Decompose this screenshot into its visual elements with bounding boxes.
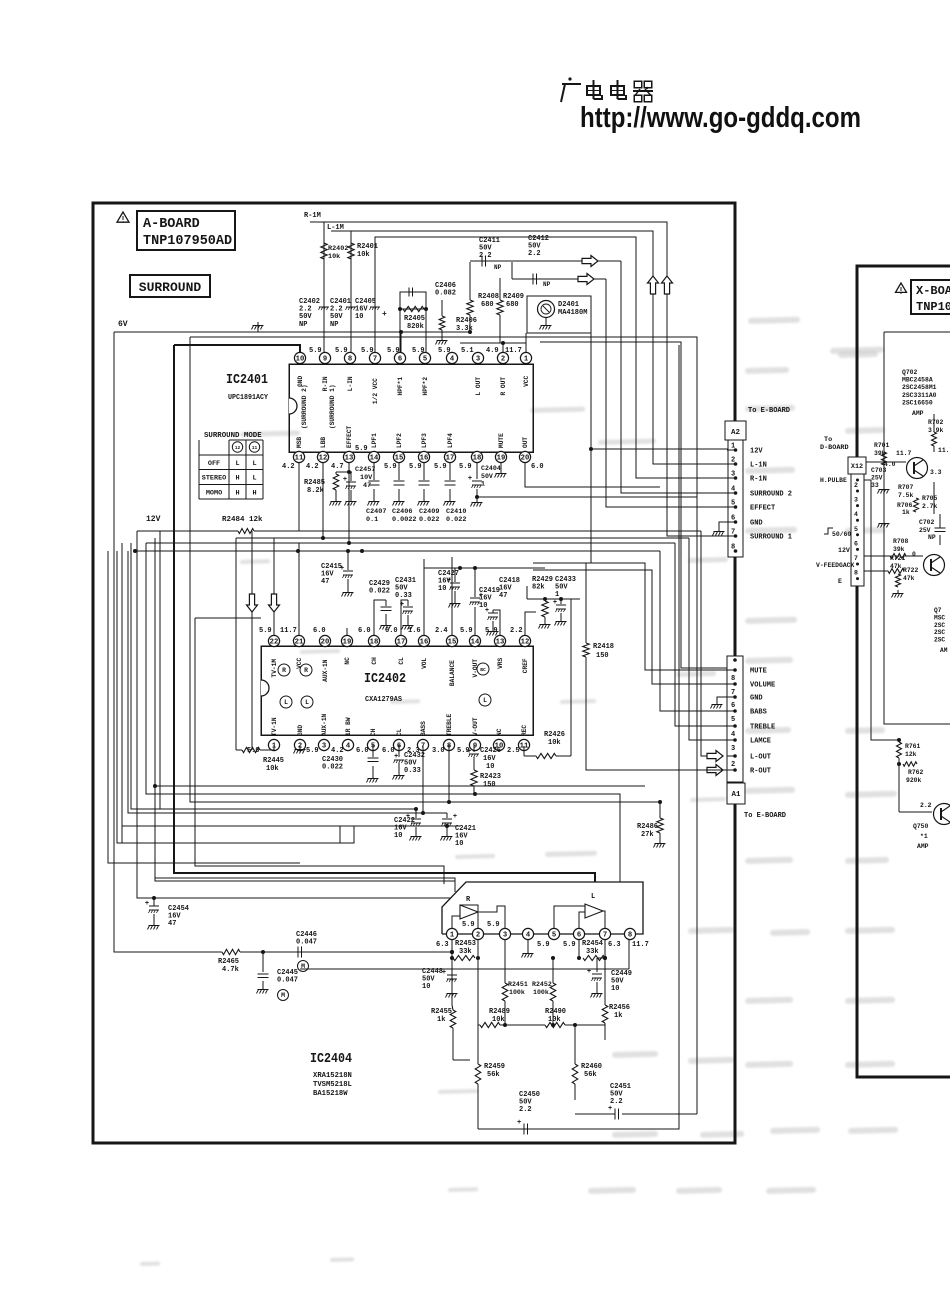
svg-text:17: 17 [397,639,406,647]
svg-text:BASS: BASS [420,721,427,736]
svg-text:4.7k: 4.7k [222,966,239,974]
svg-text:4.2: 4.2 [331,747,344,755]
svg-text:CH: CH [371,657,378,665]
svg-text:HPF*2: HPF*2 [422,377,429,396]
svg-text:R761: R761 [905,743,921,750]
svg-text:+: + [400,601,404,609]
svg-text:4: 4 [346,743,351,751]
svg-text:13: 13 [496,639,505,647]
svg-text:3: 3 [731,471,735,479]
svg-text:10k: 10k [357,251,370,259]
svg-text:15: 15 [395,455,404,463]
svg-text:16: 16 [420,455,429,463]
svg-text:5.9: 5.9 [335,347,348,355]
svg-text:Q750: Q750 [913,823,929,830]
svg-text:R721: R721 [890,555,906,562]
svg-text:X12: X12 [851,463,863,471]
svg-text:47k: 47k [903,575,915,582]
svg-text:5: 5 [423,356,427,364]
svg-text:V-FEEDGACK: V-FEEDGACK [816,562,855,569]
svg-text:R2454: R2454 [582,940,603,948]
svg-text:R2445: R2445 [263,757,284,765]
svg-text:C2410: C2410 [446,508,466,516]
svg-text:4.7: 4.7 [331,463,344,471]
svg-text:8: 8 [348,356,352,364]
svg-text:R2460: R2460 [581,1063,602,1071]
svg-text:11: 11 [295,455,304,463]
svg-text:1k: 1k [902,509,910,516]
svg-text:3.0: 3.0 [432,747,445,755]
svg-text:R705: R705 [922,495,938,502]
svg-text:R2408: R2408 [478,293,499,301]
svg-text:VOLUME: VOLUME [750,682,775,690]
svg-text:2.2: 2.2 [920,802,932,809]
svg-text:33: 33 [871,482,879,489]
svg-text:NP: NP [299,321,307,329]
svg-text:MUTE: MUTE [498,433,505,448]
svg-text:4: 4 [731,731,735,739]
svg-text:TNP107: TNP107 [916,300,950,314]
svg-text:+: + [517,1119,521,1127]
svg-text:680: 680 [481,301,494,309]
svg-text:1.6: 1.6 [408,627,421,635]
svg-text:EFFECT: EFFECT [346,425,353,448]
svg-text:8: 8 [731,675,735,683]
svg-text:1: 1 [450,932,455,940]
svg-text:5.9: 5.9 [412,347,425,355]
svg-text:12: 12 [521,639,530,647]
svg-text:A1: A1 [731,791,741,799]
svg-text:L: L [305,699,309,706]
svg-text:8: 8 [628,932,632,940]
svg-text:3.3: 3.3 [930,469,942,476]
svg-text:47: 47 [321,578,329,586]
svg-text:1k: 1k [614,1012,622,1020]
svg-text:*1: *1 [920,833,928,840]
svg-text:H: H [235,489,239,497]
svg-text:R701: R701 [874,442,890,449]
svg-text:5: 5 [731,716,735,724]
svg-text:6.0: 6.0 [356,747,369,755]
svg-text:LBB: LBB [320,437,327,448]
svg-text:TV-1N: TV-1N [271,717,278,736]
svg-text:+: + [442,969,446,977]
svg-text:2SC2458M1: 2SC2458M1 [902,384,937,391]
svg-text:2.2: 2.2 [510,627,523,635]
svg-text:+: + [382,310,387,319]
svg-text:VCC: VCC [523,375,530,386]
svg-text:+: + [145,900,149,908]
svg-text:11.7: 11.7 [632,941,649,949]
svg-text:R2486: R2486 [637,823,658,831]
svg-text:GND: GND [297,725,304,736]
svg-text:11.7: 11.7 [505,347,522,355]
svg-text:6: 6 [731,515,735,523]
svg-text:R2401: R2401 [357,243,378,251]
svg-text:6V: 6V [118,320,128,329]
svg-text:L: L [252,460,256,468]
svg-text:10: 10 [394,832,402,840]
svg-text:MUTE: MUTE [750,668,767,676]
svg-text:82k: 82k [532,584,545,592]
svg-text:1/2 VCC: 1/2 VCC [372,378,379,404]
svg-text:2: 2 [731,457,735,465]
svg-text:L: L [483,697,487,704]
svg-text:12V: 12V [750,448,763,456]
svg-text:0.047: 0.047 [296,939,317,947]
svg-text:(SURROUND 2): (SURROUND 2) [301,384,308,429]
svg-text:CREF: CREF [522,658,529,673]
svg-text:TNP107950AD: TNP107950AD [143,234,232,249]
svg-text:H: H [235,475,239,483]
svg-text:11.7: 11.7 [896,450,912,457]
svg-text:L: L [284,699,288,706]
svg-text:2.4: 2.4 [435,627,448,635]
svg-text:7: 7 [854,555,858,562]
svg-text:OUT: OUT [522,437,529,448]
svg-text:IC2401: IC2401 [226,372,268,388]
svg-text:16V: 16V [483,755,496,763]
svg-text:0.1: 0.1 [366,516,378,524]
svg-text:STEREO: STEREO [202,475,226,483]
svg-text:6.0: 6.0 [358,627,371,635]
svg-text:10: 10 [296,356,305,364]
svg-text:A-BOARD: A-BOARD [143,217,200,232]
svg-text:8: 8 [731,544,735,552]
svg-text:TV-1M: TV-1M [271,659,278,678]
svg-text:R762: R762 [908,769,924,776]
svg-text:M: M [281,992,285,999]
svg-text:2SC: 2SC [934,637,945,644]
svg-text:2.5: 2.5 [507,747,520,755]
svg-text:BA15218W: BA15218W [313,1090,348,1098]
svg-text:R2489: R2489 [489,1008,510,1016]
svg-text:4.2: 4.2 [282,463,295,471]
svg-text:C2406: C2406 [392,508,412,516]
svg-text:R722: R722 [903,567,919,574]
svg-text:AUX-1N: AUX-1N [322,659,329,682]
svg-text:100k: 100k [533,989,549,996]
svg-text:0.33: 0.33 [404,767,421,775]
svg-text:5.9: 5.9 [309,347,322,355]
svg-text:6.0: 6.0 [313,627,326,635]
svg-text:12: 12 [319,455,328,463]
svg-text:GND: GND [750,520,763,528]
svg-text:R2406: R2406 [456,317,477,325]
svg-text:10: 10 [486,763,494,771]
svg-text:R2409: R2409 [503,293,524,301]
svg-text:5.9: 5.9 [487,921,500,929]
svg-text:CL: CL [398,657,405,665]
svg-text:MSC: MSC [934,614,945,621]
svg-text:18: 18 [370,639,379,647]
svg-text:LPF2: LPF2 [396,433,403,448]
svg-text:NP: NP [494,264,502,271]
svg-text:To E-BOARD: To E-BOARD [744,812,786,820]
svg-text:CL: CL [396,728,403,736]
svg-text:C2457: C2457 [355,466,375,474]
svg-text:4.2: 4.2 [306,463,319,471]
svg-text:8.2k: 8.2k [307,487,324,495]
svg-text:6: 6 [731,702,735,710]
svg-text:R2426: R2426 [544,731,565,739]
svg-text:10: 10 [611,985,619,993]
svg-text:150: 150 [596,652,609,660]
svg-text:47: 47 [168,920,176,928]
svg-text:CH: CH [370,728,377,736]
svg-text:UPC1891ACY: UPC1891ACY [228,394,268,402]
svg-text:R2402: R2402 [328,245,348,253]
svg-text:6.3: 6.3 [608,941,621,949]
svg-text:+: + [479,592,483,600]
svg-text:4: 4 [450,356,455,364]
svg-text:V-OUT: V-OUT [472,717,479,736]
svg-text:2.7k: 2.7k [922,503,938,510]
svg-text:D-BOARD: D-BOARD [820,444,849,452]
svg-text:5.9: 5.9 [459,463,472,471]
svg-text:4: 4 [526,932,531,940]
svg-text:100k: 100k [509,989,525,996]
svg-text:Q702: Q702 [902,369,918,376]
svg-text:0.022: 0.022 [446,516,466,524]
svg-text:L-IN: L-IN [347,376,354,391]
svg-text:NP: NP [543,281,551,288]
svg-text:10k: 10k [548,739,561,747]
svg-text:1: 1 [731,443,735,451]
svg-text:3: 3 [476,356,480,364]
svg-text:2SC16650: 2SC16650 [902,399,933,406]
svg-text:22: 22 [270,639,279,647]
svg-text:2: 2 [731,761,735,769]
svg-text:TREBLE: TREBLE [750,724,775,732]
svg-text:12k: 12k [905,751,917,758]
svg-text:9: 9 [323,356,327,364]
svg-text:R702: R702 [928,419,944,426]
svg-text:5: 5 [731,500,735,508]
svg-text:39k: 39k [893,546,905,553]
svg-text:6.0: 6.0 [531,463,544,471]
svg-text:C2409: C2409 [419,508,439,516]
svg-text:680: 680 [506,301,519,309]
svg-text:2: 2 [501,356,505,364]
svg-text:6: 6 [398,356,402,364]
svg-text:R: R [304,667,308,674]
svg-text:LPF1: LPF1 [371,433,378,448]
svg-text:0.022: 0.022 [369,588,390,596]
svg-text:16: 16 [420,639,429,647]
svg-text:2SC: 2SC [934,629,945,636]
svg-text:6.0: 6.0 [382,747,395,755]
svg-text:IC2402: IC2402 [364,671,406,687]
svg-text:(SURROUND 1): (SURROUND 1) [329,384,336,429]
svg-text:5.9: 5.9 [537,941,550,949]
svg-text:R-1N: R-1N [750,476,767,484]
svg-text:3: 3 [503,932,507,940]
svg-text:7: 7 [373,356,377,364]
svg-text:12: 12 [235,445,241,451]
svg-text:R2405: R2405 [404,315,425,323]
svg-text:10: 10 [455,840,463,848]
svg-text:150: 150 [483,781,496,789]
svg-text:R2485: R2485 [304,479,325,487]
svg-text:5.9: 5.9 [438,347,451,355]
svg-text:11: 11 [252,445,258,451]
svg-text:5: 5 [854,526,858,533]
svg-text:SURROUND 1: SURROUND 1 [750,534,792,542]
svg-text:C2426: C2426 [480,747,501,755]
svg-text:50V: 50V [481,473,493,480]
svg-text:5.9: 5.9 [355,445,368,453]
svg-text:5.9: 5.9 [259,627,272,635]
svg-text:R2453: R2453 [455,940,476,948]
svg-text:7: 7 [731,529,735,537]
svg-text:6.0: 6.0 [385,627,398,635]
svg-text:33k: 33k [586,948,599,956]
svg-text:5.9: 5.9 [384,463,397,471]
svg-text:E: E [838,578,842,585]
svg-text:NC: NC [496,728,503,736]
svg-text:+: + [485,607,489,615]
svg-text:R707: R707 [898,484,914,491]
svg-text:5.9: 5.9 [306,747,319,755]
svg-text:47: 47 [363,482,371,490]
svg-text:0.082: 0.082 [435,290,456,298]
svg-text:5.9: 5.9 [563,941,576,949]
svg-text:EFFECT: EFFECT [750,505,775,513]
svg-text:VOL: VOL [421,657,428,668]
svg-text:5: 5 [552,932,556,940]
svg-text:R708: R708 [893,538,909,545]
svg-text:10k: 10k [266,765,279,773]
svg-text:8: 8 [854,570,858,577]
svg-text:R2452: R2452 [532,981,552,988]
svg-text:R2459: R2459 [484,1063,505,1071]
svg-text:To E-BOARD: To E-BOARD [748,407,790,415]
svg-text:R2455: R2455 [431,1008,452,1016]
svg-text:+: + [553,599,557,607]
svg-text:BC: BC [480,667,486,673]
svg-text:R-1M: R-1M [304,212,321,220]
svg-text:5.1: 5.1 [461,347,474,355]
svg-text:14: 14 [370,455,379,463]
svg-text:2.2: 2.2 [519,1106,532,1114]
svg-text:REC: REC [521,725,528,736]
svg-text:R2465: R2465 [218,958,239,966]
svg-text:56k: 56k [487,1071,500,1079]
svg-text:33k: 33k [459,948,472,956]
svg-text:+: + [468,475,472,483]
svg-text:1k: 1k [437,1016,445,1024]
svg-text:1: 1 [555,591,559,599]
svg-text:4: 4 [854,511,858,518]
svg-text:12V: 12V [838,547,850,554]
svg-text:BABS: BABS [750,709,767,717]
svg-text:5.9: 5.9 [409,463,422,471]
svg-text:5.9: 5.9 [460,627,473,635]
svg-text:C702: C702 [919,519,935,526]
svg-text:20: 20 [321,639,330,647]
svg-text:13: 13 [345,455,354,463]
svg-text:XRA15218N: XRA15218N [313,1072,352,1080]
svg-text:19: 19 [343,639,352,647]
svg-text:SURROUND: SURROUND [139,280,202,295]
svg-text:AMP: AMP [912,410,924,417]
svg-text:SURROUND 2: SURROUND 2 [750,491,792,499]
svg-text:6: 6 [854,540,858,547]
svg-text:H.PULBE: H.PULBE [820,477,847,484]
svg-text:BALANCE: BALANCE [449,660,456,686]
svg-text:SURROUND MODE: SURROUND MODE [204,432,262,440]
svg-text:5.9: 5.9 [387,347,400,355]
svg-text:L OUT: L OUT [475,377,482,396]
svg-text:4.9: 4.9 [486,347,499,355]
svg-text:25V: 25V [871,474,883,481]
svg-text:0.022: 0.022 [322,764,343,772]
svg-text:5.9: 5.9 [434,463,447,471]
svg-text:LPF3: LPF3 [421,433,428,448]
svg-text:3: 3 [731,745,735,753]
svg-text:11.7: 11.7 [280,627,297,635]
svg-text:X-BOAR: X-BOAR [916,284,950,298]
svg-text:NP: NP [928,534,936,541]
svg-text:27k: 27k [641,831,654,839]
svg-text:12V: 12V [146,515,161,524]
svg-text:7.5k: 7.5k [898,492,914,499]
svg-text:C2404: C2404 [481,465,501,472]
svg-text:AUX-1N: AUX-1N [321,713,328,736]
svg-text:MA4180M: MA4180M [558,309,587,317]
svg-text:MBC2458A: MBC2458A [902,377,933,384]
svg-text:MSB: MSB [296,437,303,448]
svg-text:OFF: OFF [208,460,220,468]
svg-text:56k: 56k [584,1071,597,1079]
svg-text:L: L [235,460,239,468]
svg-text:+: + [447,577,451,585]
svg-text:3: 3 [322,743,326,751]
svg-text:47: 47 [499,592,507,600]
svg-text:0.33: 0.33 [395,592,412,600]
svg-text:17: 17 [446,455,455,463]
svg-text:TVSM5218L: TVSM5218L [313,1081,352,1089]
svg-text:HPF*1: HPF*1 [397,377,404,396]
svg-text:21: 21 [295,639,304,647]
svg-text:6: 6 [577,932,581,940]
svg-text:10k: 10k [328,253,340,261]
svg-text:0: 0 [912,551,916,558]
svg-text:2SC3311A0: 2SC3311A0 [902,392,937,399]
svg-text:R706: R706 [897,502,913,509]
svg-text:VRS: VRS [497,657,504,668]
svg-text:4: 4 [731,486,735,494]
svg-text:To: To [824,436,832,444]
svg-text:NC: NC [344,657,351,665]
svg-text:2.2: 2.2 [528,250,541,258]
svg-text:LAMCE: LAMCE [750,738,771,746]
svg-text:LPF4: LPF4 [447,433,454,448]
svg-text:6.3: 6.3 [436,941,449,949]
svg-text:AM: AM [940,647,948,654]
svg-text:7: 7 [603,932,607,940]
svg-text:D2401: D2401 [558,301,579,309]
svg-text:2: 2 [476,932,480,940]
svg-text:L-OUT: L-OUT [750,754,771,762]
svg-text:L: L [252,475,256,483]
svg-text:http://www.go-gddq.com: http://www.go-gddq.com [580,102,861,134]
svg-text:R: R [282,667,286,674]
svg-text:0.0022: 0.0022 [392,516,416,524]
svg-text:3: 3 [854,497,858,504]
svg-text:19: 19 [497,455,506,463]
